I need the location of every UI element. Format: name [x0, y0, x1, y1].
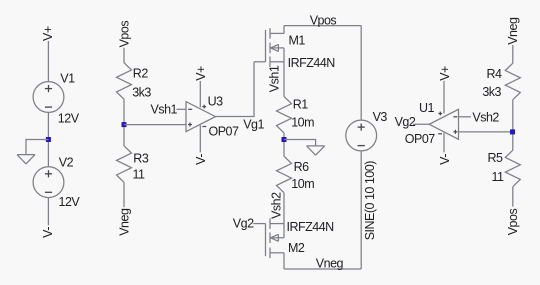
op-amp U1	[429, 109, 458, 139]
wire	[284, 140, 316, 146]
svg-text:R6: R6	[294, 160, 310, 174]
svg-text:IRFZ44N: IRFZ44N	[287, 220, 335, 234]
wire	[47, 112, 49, 167]
wire	[512, 45, 514, 63]
transistor M1	[254, 61, 266, 63]
voltage source V2	[33, 167, 64, 198]
transistor M2	[265, 224, 267, 257]
svg-text:V+: V+	[194, 66, 208, 81]
svg-text:Vpos: Vpos	[310, 13, 337, 27]
svg-text:OP07: OP07	[209, 125, 240, 139]
wire	[284, 268, 361, 270]
wire	[253, 223, 265, 225]
svg-text:R3: R3	[133, 152, 149, 166]
node junction	[46, 137, 51, 142]
svg-text:10m: 10m	[291, 116, 314, 130]
op-amp U3	[186, 102, 216, 132]
wire	[283, 193, 285, 224]
wire	[284, 25, 361, 27]
wire	[512, 100, 514, 151]
svg-text:V1: V1	[60, 72, 75, 86]
voltage source V1	[33, 82, 64, 113]
svg-text:R5: R5	[488, 151, 504, 165]
svg-text:V-: V-	[41, 227, 55, 238]
svg-text:Vsh1: Vsh1	[267, 65, 281, 92]
svg-text:Vpos: Vpos	[118, 21, 132, 48]
wire	[443, 81, 445, 114]
wire	[124, 124, 186, 126]
wire	[47, 41, 49, 82]
svg-text:12V: 12V	[59, 195, 81, 209]
svg-text:M1: M1	[289, 34, 306, 48]
svg-text:V3: V3	[373, 110, 388, 124]
svg-text:V+: V+	[41, 26, 55, 41]
wire	[459, 131, 513, 133]
wire	[360, 26, 362, 121]
svg-text:Vg1: Vg1	[243, 117, 264, 131]
resistor R6	[277, 156, 292, 193]
wire	[47, 198, 49, 226]
wire	[123, 48, 125, 63]
svg-text:10m: 10m	[291, 177, 314, 191]
svg-text:3k3: 3k3	[482, 85, 501, 99]
wire	[283, 62, 285, 97]
svg-text:R2: R2	[133, 67, 149, 81]
svg-text:V-: V-	[438, 154, 452, 165]
wire	[177, 108, 187, 110]
svg-text:11: 11	[133, 168, 146, 182]
wire	[459, 116, 471, 118]
svg-text:U1: U1	[419, 101, 435, 115]
node junction	[122, 122, 127, 127]
svg-text:V2: V2	[59, 155, 74, 169]
svg-text:Vpos: Vpos	[506, 209, 520, 236]
wire	[283, 133, 285, 156]
svg-text:OP07: OP07	[405, 132, 436, 146]
svg-text:11: 11	[492, 170, 505, 184]
ground	[307, 145, 325, 147]
wire	[199, 125, 201, 152]
svg-text:Vneg: Vneg	[506, 17, 520, 45]
wire	[443, 133, 445, 153]
wire	[26, 140, 48, 155]
node junction	[510, 129, 515, 134]
svg-text:R1: R1	[293, 97, 309, 111]
svg-text:Vsh2: Vsh2	[472, 111, 499, 125]
node junction	[282, 137, 287, 142]
svg-text:3k3: 3k3	[132, 85, 151, 99]
resistor R3	[117, 146, 132, 183]
svg-text:Vg2: Vg2	[233, 217, 254, 231]
svg-text:Vsh1: Vsh1	[151, 102, 178, 116]
wire	[123, 182, 125, 207]
svg-text:IRFZ44N: IRFZ44N	[288, 56, 336, 70]
svg-text:Vg2: Vg2	[395, 115, 416, 129]
wire	[413, 123, 429, 125]
voltage source V3	[346, 120, 377, 151]
resistor R2	[117, 63, 132, 99]
ground	[17, 154, 35, 156]
wire	[512, 187, 514, 207]
wire	[199, 81, 201, 108]
svg-text:SINE(0 10 100): SINE(0 10 100)	[363, 161, 377, 240]
svg-text:V+: V+	[438, 66, 452, 81]
resistor R5	[505, 150, 520, 187]
wire	[123, 99, 125, 146]
svg-text:Vneg: Vneg	[118, 208, 132, 236]
svg-text:V-: V-	[194, 154, 208, 165]
svg-text:Vsh2: Vsh2	[269, 192, 283, 219]
svg-text:Vneg: Vneg	[316, 256, 344, 270]
svg-text:R4: R4	[487, 67, 503, 81]
wire	[360, 151, 362, 269]
svg-text:12V: 12V	[58, 112, 80, 126]
resistor R1	[277, 96, 292, 132]
svg-text:M2: M2	[288, 241, 305, 255]
wire	[216, 62, 255, 117]
resistor R4	[505, 63, 520, 99]
svg-text:U3: U3	[208, 95, 224, 109]
